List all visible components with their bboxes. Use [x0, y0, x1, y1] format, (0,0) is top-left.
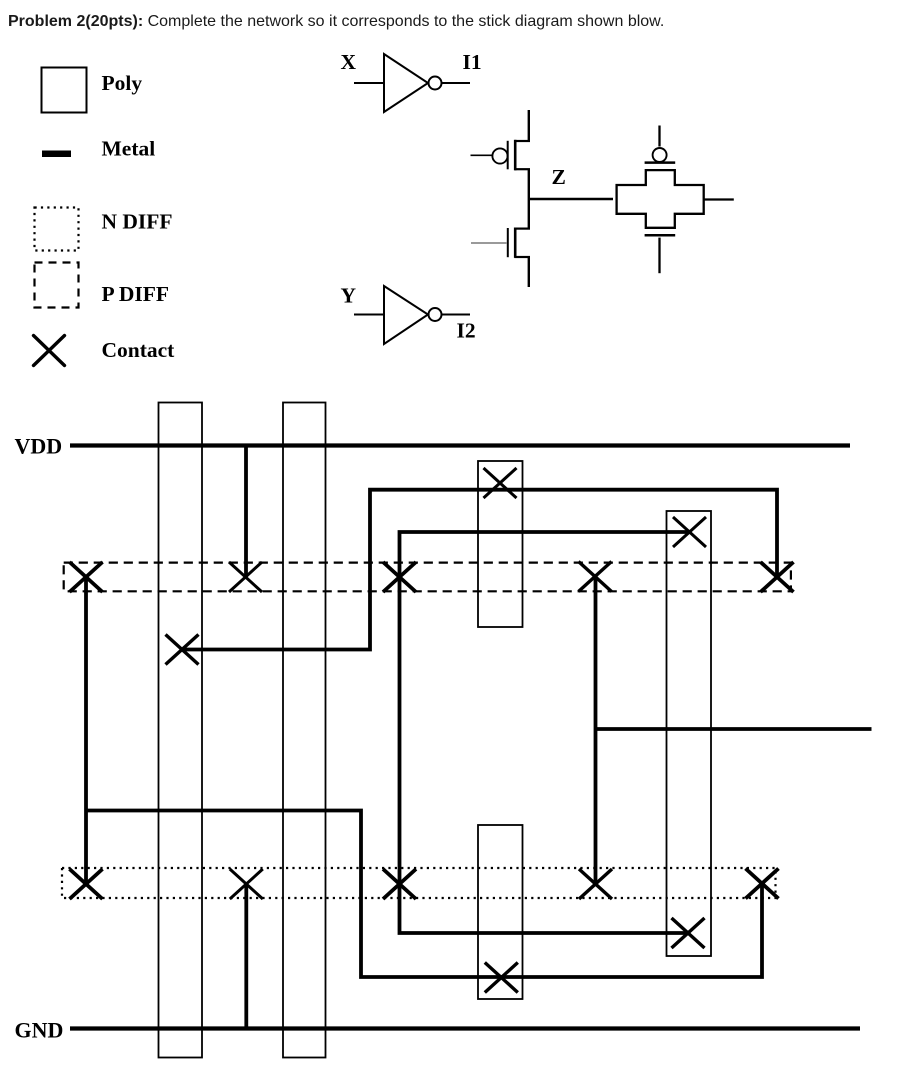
svg-text:I1: I1: [463, 50, 482, 74]
svg-text:X: X: [341, 50, 357, 74]
svg-text:N DIFF: N DIFF: [102, 210, 173, 234]
svg-text:I2: I2: [457, 318, 476, 342]
svg-text:GND: GND: [15, 1017, 64, 1042]
svg-text:VDD: VDD: [15, 434, 63, 459]
svg-text:Metal: Metal: [102, 137, 156, 161]
svg-text:P DIFF: P DIFF: [102, 282, 169, 306]
svg-text:Contact: Contact: [102, 338, 176, 362]
svg-text:Problem 2(20pts): Complete the: Problem 2(20pts): Complete the network s…: [8, 13, 664, 30]
svg-text:Z: Z: [552, 165, 566, 189]
svg-text:Poly: Poly: [102, 71, 143, 95]
svg-text:Y: Y: [341, 283, 357, 307]
